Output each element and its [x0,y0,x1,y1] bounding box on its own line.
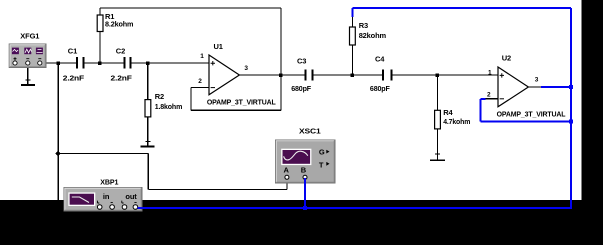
ground below XFG1 [21,65,35,85]
wire R4 top lead [437,75,439,110]
svg-text:8.2kohm: 8.2kohm [105,20,134,29]
wire blue R3 top stub [351,8,353,17]
capacitor C1 [63,47,85,83]
svg-text:OPAMP_3T_VIRTUAL: OPAMP_3T_VIRTUAL [207,97,276,106]
resistor R1 [97,12,134,32]
svg-text:R3: R3 [359,21,368,30]
svg-text:2: 2 [198,78,202,85]
wire U2 pin2 stub [486,98,498,100]
black screenshot band bottom [0,200,603,245]
bode plotter XBP1 [64,177,142,211]
junction U1 output node [279,73,283,77]
capacitor C4 [370,54,392,93]
svg-text:680pF: 680pF [291,84,311,93]
wire R3 bottom lead [351,45,353,75]
capacitor C3 [291,57,313,94]
op-amp U1 [198,42,276,106]
oscilloscope XSC1 [276,127,336,184]
wire vertical x=148.3 [147,154,149,190]
svg-text:XFG1: XFG1 [20,32,39,41]
wire C1 to C2 [84,62,123,64]
wire U2 output stub [528,86,541,88]
svg-text:2: 2 [487,92,491,99]
wire C4 to U2 pin1 [392,74,498,76]
wire U1 pin2 stub [191,87,209,89]
wire blue bottom rail to XBP1 out [138,207,571,209]
svg-text:82kohm: 82kohm [359,31,387,40]
wire R1 bottom lead [99,32,101,64]
resistor R4 [435,108,471,129]
ground below R2 [140,142,154,147]
svg-text:G: G [319,147,325,156]
svg-text:U2: U2 [502,54,511,63]
junction R3 node [351,73,355,77]
svg-text:R4: R4 [443,108,453,117]
capacitor C2 [111,47,133,83]
svg-text:B: B [301,166,307,175]
svg-text:C1: C1 [68,47,77,56]
svg-text:C4: C4 [375,54,385,63]
wire R1 top lead [99,8,101,15]
svg-text:XSC1: XSC1 [299,127,321,136]
svg-text:in: in [103,192,110,201]
svg-text:1.8kohm: 1.8kohm [155,102,183,111]
svg-text:4.7kohm: 4.7kohm [443,117,470,126]
resistor R3 [350,21,387,45]
wire blue top rail R3 to output [352,7,571,9]
op-amp U2 [487,54,566,119]
wire XFG1 to C1 [42,62,76,64]
svg-text:C3: C3 [297,57,306,66]
junction Vin/C1 node [57,61,61,65]
wire blue XSC1 B probe [304,178,306,208]
junction R2 node [146,61,150,65]
wire feedback vertical x=281 [280,8,282,110]
svg-text:C2: C2 [116,47,125,56]
svg-text:T: T [319,160,324,169]
wire XSC1 A horizontal [148,189,287,191]
svg-text:2.2nF: 2.2nF [111,73,133,82]
wire to Vin node at y=153.5 [58,153,148,155]
junction R4 node [436,73,440,77]
svg-text:1: 1 [488,70,492,77]
junction R1 node [98,61,102,65]
svg-text:1: 1 [200,53,204,60]
wire blue U2 loop vertical [480,99,482,122]
black screenshot band right [582,0,603,200]
wire blue vertical x=571 [570,8,572,209]
junction Vin branch to XSC1 A [55,151,61,156]
wire C2 to U1 pin1 [132,62,209,64]
junction blue XSC1 B node [303,206,307,210]
resistor R2 [145,92,183,117]
function generator XFG1 [9,32,46,68]
svg-text:3: 3 [535,77,539,84]
wire U1 loop bottom [191,109,281,111]
wire blue U2 loop bottom [481,121,572,123]
wire C3 to C4 [313,74,382,76]
svg-text:2.2nF: 2.2nF [63,73,85,82]
svg-text:OPAMP_3T_VIRTUAL: OPAMP_3T_VIRTUAL [497,110,566,119]
wire U1 output to C3 [239,74,304,76]
wire blue U2 loop left [481,98,486,100]
svg-text:R2: R2 [155,92,164,101]
wire U1 loop left vertical [190,88,192,111]
svg-text:680pF: 680pF [370,84,390,93]
svg-text:3: 3 [244,65,248,72]
wire Vin vertical down to XBP1 in+ [57,63,59,201]
svg-text:U1: U1 [214,42,223,51]
junction blue U2 output node [569,85,573,89]
wire blue U2 output [541,86,571,88]
wire R1 feedback top rail [100,7,281,9]
wire R3 top lead [351,16,353,27]
ground below R4 [430,154,445,160]
wire R2 top lead [147,63,149,100]
wire R4 bottom lead [437,129,439,160]
wire XSC1 A probe down [286,178,288,190]
svg-text:A: A [284,166,290,175]
junction blue U2 loop node [569,120,573,124]
svg-text:XBP1: XBP1 [100,177,118,186]
wire R2 bottom lead [147,117,149,146]
svg-text:out: out [125,192,137,201]
